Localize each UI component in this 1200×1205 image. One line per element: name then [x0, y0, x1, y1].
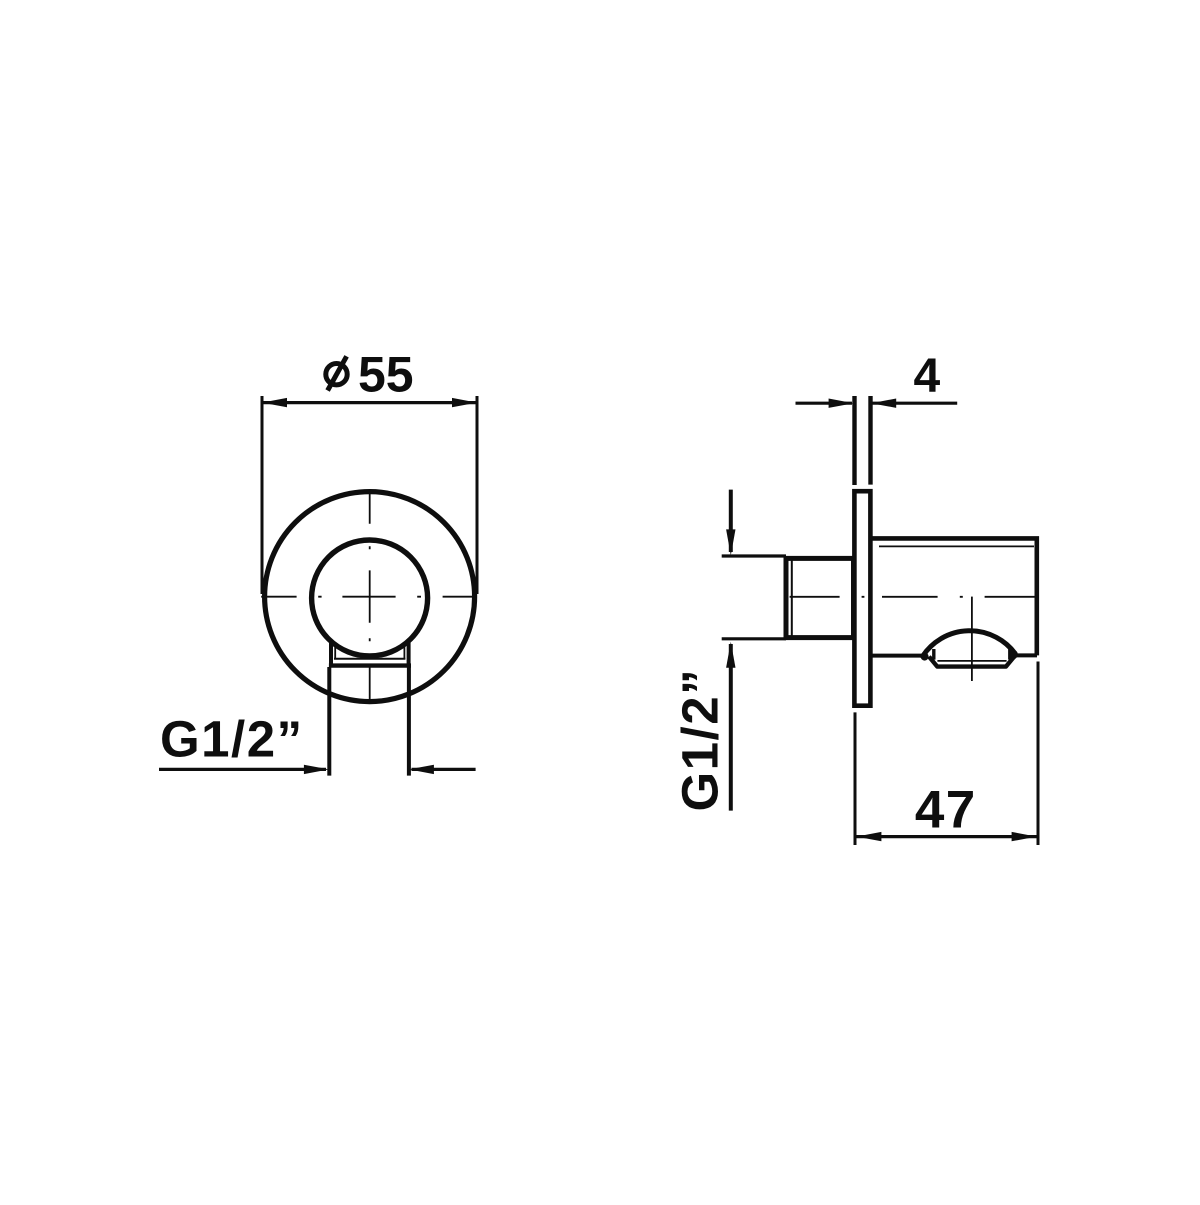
outlet vertical centerline — [971, 597, 973, 681]
nipple thread relief line — [791, 556, 793, 639]
dim4 line right — [872, 402, 957, 405]
G1/2 side upper arrow — [726, 529, 735, 555]
dim47 left arrow — [856, 832, 881, 841]
dia55 right arrow — [452, 398, 477, 407]
outer flange circle — [265, 492, 475, 702]
dia55 left arrow — [262, 398, 287, 407]
G1/2 dim line right — [412, 768, 476, 771]
G1/2 right arrow — [409, 765, 434, 774]
dim47 left extension line — [854, 712, 857, 845]
dia55 right extension line — [476, 396, 479, 594]
G1/2 left arrow — [304, 765, 329, 774]
G1/2 dim line left — [159, 768, 326, 771]
G1/2 side bottom extension line — [722, 637, 786, 640]
G1/2 side top extension line — [722, 554, 786, 557]
threaded nipple — [786, 558, 854, 637]
pipe left edge — [327, 667, 331, 776]
G1/2 side lower arrow — [726, 642, 735, 668]
dim47 line — [855, 835, 1038, 838]
outlet right tick — [1008, 649, 1011, 660]
vertical centerline — [369, 490, 371, 701]
G1/2 side lower arrow line — [729, 644, 733, 811]
G1/2 side upper arrow line — [729, 490, 733, 552]
outlet nut thin line — [937, 660, 1006, 662]
pipe right edge — [407, 667, 411, 776]
dome right foot knot — [1009, 651, 1017, 659]
svg-text:4: 4 — [914, 350, 941, 403]
collar right edge — [407, 641, 411, 667]
body top and right edge — [871, 538, 1037, 655]
dome left foot knot — [921, 653, 929, 661]
ball circle — [312, 540, 428, 656]
dim47 right arrow — [1012, 832, 1037, 841]
body thin chamfer line — [879, 545, 1034, 547]
collar thin seat line — [334, 658, 405, 660]
dim4 left extension line — [852, 396, 856, 485]
dim4 left arrow — [829, 399, 854, 408]
dim4 line left — [796, 402, 853, 405]
outlet dome — [923, 631, 1016, 656]
collar inner thin left — [334, 642, 336, 659]
dim4 right arrow — [871, 399, 896, 408]
dim4 right extension line — [868, 396, 872, 485]
body bottom right segment — [1014, 653, 1037, 657]
svg-text:G1/2”: G1/2” — [160, 711, 304, 768]
svg-text:G1/2”: G1/2” — [672, 668, 729, 812]
outlet nut trapezoid — [929, 657, 1014, 667]
side horizontal centerline — [790, 596, 1035, 598]
diameter symbol — [326, 364, 347, 385]
dia55 dimension line — [262, 401, 477, 404]
dim47 right extension line — [1037, 662, 1040, 846]
body bottom left segment — [871, 654, 926, 658]
wall plate — [854, 491, 870, 706]
collar bottom thick line — [329, 663, 411, 667]
collar left edge — [329, 641, 333, 667]
collar inner thin right — [403, 642, 405, 659]
dia55 left extension line — [261, 396, 264, 594]
svg-text:55: 55 — [358, 347, 414, 403]
svg-text:47: 47 — [915, 781, 977, 840]
horizontal centerline — [261, 596, 474, 598]
outlet left tick — [932, 649, 935, 660]
